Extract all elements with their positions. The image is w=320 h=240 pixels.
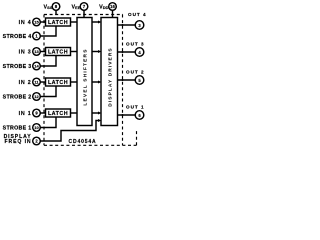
latch U3 (IN 2) (46, 78, 71, 86)
svg-text:IN 3: IN 3 (19, 49, 32, 55)
VEE pin 7 (80, 3, 88, 18)
svg-text:5: 5 (138, 78, 141, 83)
latch U2 (IN 3) (46, 48, 71, 56)
STROBE 2 pin 12 (33, 93, 41, 101)
DISPLAY FREQ IN pin 2 (33, 137, 41, 145)
wire level shifter to driver row3 (92, 81, 100, 83)
wire pin13 to latch U2 (40, 51, 45, 53)
wire pin12 to latch U3 strobe (40, 86, 56, 97)
svg-text:IN 1: IN 1 (19, 111, 32, 117)
latch U4 (IN 1) (46, 109, 71, 117)
wire pin9 to latch U4 (40, 112, 45, 114)
svg-text:OUT 3: OUT 3 (126, 42, 145, 47)
OUT 3 pin 4 (135, 48, 144, 57)
svg-text:LATCH: LATCH (48, 50, 68, 56)
svg-text:CD4054A: CD4054A (69, 139, 97, 145)
VDD pin 16 (109, 3, 117, 18)
svg-text:STROBE 3: STROBE 3 (3, 64, 32, 70)
svg-text:LATCH: LATCH (48, 111, 68, 117)
svg-text:13: 13 (34, 49, 39, 54)
STROBE 3 pin 14 (33, 62, 41, 70)
svg-text:OUT 2: OUT 2 (126, 70, 145, 75)
svg-text:STROBE 4: STROBE 4 (3, 34, 32, 40)
OUT 1 pin 6 (135, 111, 144, 120)
wire latch U2 to level shifters (71, 51, 78, 53)
wire latch U1 to level shifters (71, 21, 78, 23)
svg-text:10: 10 (34, 125, 39, 130)
svg-text:9: 9 (35, 111, 38, 116)
svg-text:6: 6 (138, 113, 141, 118)
svg-text:IN 4: IN 4 (19, 20, 32, 26)
STROBE 1 pin 10 (33, 124, 41, 132)
svg-text:LEVEL SHIFTERS: LEVEL SHIFTERS (83, 48, 89, 105)
OUT 2 pin 5 (135, 76, 144, 85)
wire to OUT 3 (118, 51, 136, 53)
svg-text:LATCH: LATCH (48, 20, 68, 26)
svg-text:DISPLAY DRIVERS: DISPLAY DRIVERS (108, 47, 114, 106)
display drivers block (101, 18, 118, 126)
svg-text:VEE: VEE (72, 4, 81, 10)
STROBE 4 pin 1 (33, 32, 41, 40)
svg-text:OUT 1: OUT 1 (126, 105, 145, 110)
wire pin11 to latch U3 (40, 81, 45, 83)
OUT 4 pin 3 (135, 21, 144, 30)
svg-text:14: 14 (34, 64, 39, 69)
wire latch U3 to level shifters (71, 81, 78, 83)
wire pin14 to latch U2 strobe (40, 56, 56, 67)
svg-text:STROBE 1: STROBE 1 (3, 125, 32, 131)
svg-text:VSS: VSS (44, 4, 53, 10)
svg-text:FREQ IN: FREQ IN (5, 139, 32, 145)
svg-text:IN 2: IN 2 (19, 80, 32, 86)
wire pin15 to latch U1 (40, 21, 45, 23)
svg-text:15: 15 (34, 20, 39, 25)
svg-text:2: 2 (35, 139, 38, 144)
svg-text:16: 16 (110, 4, 115, 9)
svg-text:7: 7 (83, 4, 86, 9)
VSS pin 8 (52, 3, 60, 15)
wire level shifter to driver row1 (92, 21, 100, 23)
svg-text:12: 12 (34, 94, 39, 99)
svg-text:11: 11 (34, 80, 39, 85)
wire pin10 to latch U4 strobe (40, 117, 56, 128)
svg-text:1: 1 (35, 34, 38, 39)
IN 1 pin 9 (33, 109, 41, 117)
wire level shifter to driver row2 (92, 51, 100, 53)
svg-text:VDD: VDD (99, 4, 108, 10)
IN 2 pin 11 (33, 78, 41, 86)
wire pin2 display freq to display drivers (40, 121, 99, 142)
latch U1 (IN 4) (46, 18, 71, 26)
IN 3 pin 13 (33, 48, 41, 56)
svg-text:LATCH: LATCH (48, 80, 68, 86)
package outline (dashed) (44, 15, 137, 146)
svg-text:3: 3 (138, 23, 141, 28)
arrowhead freq into display drivers (98, 119, 102, 122)
IN 4 pin 15 (33, 18, 41, 26)
svg-text:STROBE 2: STROBE 2 (3, 94, 32, 100)
svg-text:4: 4 (138, 50, 141, 55)
wire level shifter to driver row4 (92, 112, 100, 114)
level shifters block (77, 18, 92, 126)
wire to OUT 2 (118, 79, 136, 81)
wire latch U4 to level shifters (71, 112, 78, 114)
wire to OUT 1 (118, 114, 136, 116)
wire to OUT 4 (118, 24, 136, 26)
wire pin1 to latch U1 strobe (40, 26, 56, 36)
svg-text:8: 8 (55, 4, 58, 9)
svg-text:OUT 4: OUT 4 (128, 12, 147, 17)
